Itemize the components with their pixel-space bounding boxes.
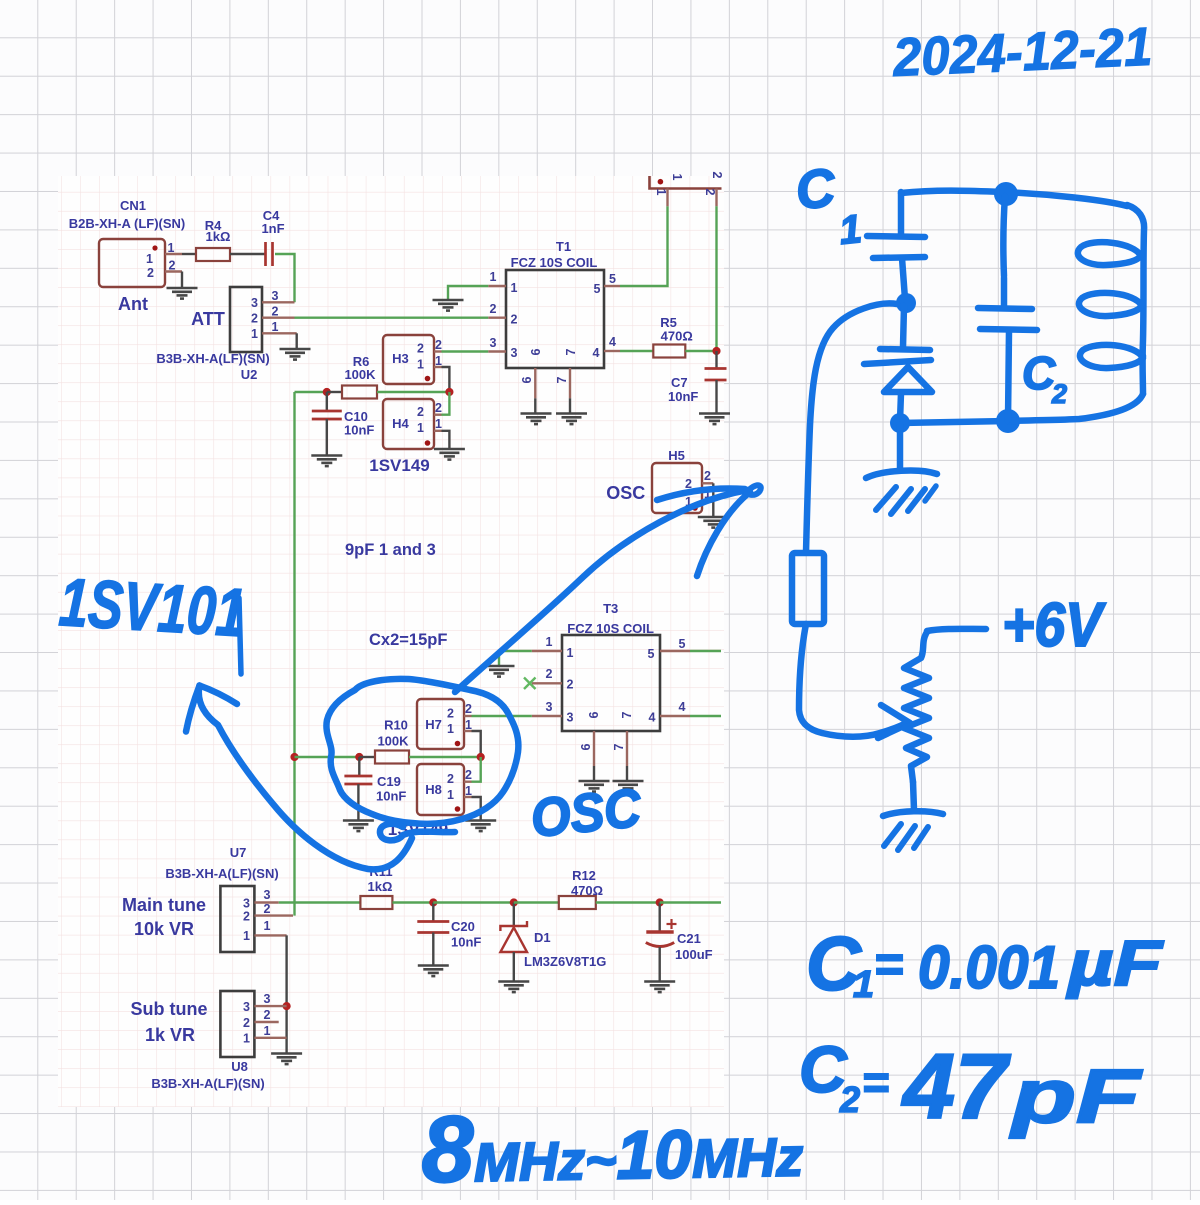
wire below resistor box bbox=[799, 624, 906, 737]
H8 pin1 marker dot bbox=[455, 806, 461, 812]
junction C20 bbox=[429, 898, 437, 906]
varactor H8 box bbox=[417, 764, 464, 815]
varactor H3 box bbox=[383, 335, 434, 384]
svg-text:U7: U7 bbox=[230, 845, 247, 860]
H5 pin 2 stub bbox=[702, 482, 713, 484]
svg-text:2: 2 bbox=[710, 172, 724, 179]
svg-text:1: 1 bbox=[264, 1024, 271, 1038]
wire CN1 pin1 to R4 bbox=[182, 253, 196, 255]
T1 pin 7 stub bbox=[569, 368, 571, 398]
hand-drawn varactor triangle bbox=[884, 367, 932, 392]
svg-text:10nF: 10nF bbox=[376, 789, 406, 804]
ground below U8 bbox=[271, 1054, 302, 1065]
svg-text:pF: pF bbox=[1009, 1054, 1143, 1139]
H5 pin 1 stub bbox=[702, 501, 713, 503]
T3 pin 4 stub bbox=[660, 715, 690, 717]
wire C21 junction to sheet edge bbox=[660, 901, 721, 903]
ground below T3 pin7 bbox=[613, 781, 644, 792]
connector U7 box bbox=[220, 886, 254, 952]
connector H5 box bbox=[652, 463, 702, 513]
svg-text:Main tune: Main tune bbox=[122, 895, 206, 915]
arrow into potentiometer bbox=[878, 705, 910, 738]
capacitor C1 plates bbox=[867, 236, 925, 258]
wire bottom node bbox=[900, 421, 1008, 423]
top connector pin 2 stub bbox=[715, 189, 717, 207]
junction C21 bbox=[656, 898, 664, 906]
svg-text:FCZ 10S COIL: FCZ 10S COIL bbox=[511, 255, 598, 270]
resistor R12 bbox=[559, 896, 596, 909]
svg-text:100K: 100K bbox=[377, 734, 409, 749]
wire top connector pin2 down to R5 junction bbox=[715, 206, 717, 351]
T1 pin 2 stub bbox=[488, 317, 506, 319]
wire R6 to H3/H4 junction bbox=[377, 391, 449, 393]
svg-text:4: 4 bbox=[609, 335, 616, 349]
svg-text:2: 2 bbox=[417, 342, 424, 356]
H8 pin numbers bbox=[447, 768, 472, 802]
wire C21 top lead bbox=[659, 903, 661, 931]
U7 pin 3 stub bbox=[254, 901, 278, 903]
T3 pin numbers bbox=[546, 635, 686, 750]
svg-text:2: 2 bbox=[147, 266, 154, 280]
svg-text:1: 1 bbox=[465, 784, 472, 798]
svg-text:C: C bbox=[1022, 347, 1056, 399]
arrowhead 1SV101 bbox=[200, 686, 238, 705]
resistor R6 bbox=[342, 386, 377, 399]
H5 pin1 marker dot bbox=[692, 505, 698, 511]
svg-text:1: 1 bbox=[435, 354, 442, 368]
potentiometer zigzag bbox=[904, 632, 929, 782]
hand-drawn ground below potentiometer bbox=[883, 811, 943, 816]
junction U8 pin3 bbox=[283, 1002, 291, 1010]
svg-text:6: 6 bbox=[520, 376, 534, 383]
hand-drawn varactor top lead bbox=[903, 306, 904, 347]
wire C20 to ground bbox=[432, 933, 434, 966]
ground below H8 bbox=[465, 821, 496, 832]
connector top edge bbox=[650, 176, 722, 189]
svg-text:100K: 100K bbox=[344, 367, 376, 382]
wire U7 pin3 to R11 bbox=[279, 901, 361, 903]
1SV101 descender stroke bbox=[239, 598, 241, 674]
svg-text:7: 7 bbox=[555, 376, 569, 383]
T1 pin 6 stub bbox=[534, 368, 536, 398]
svg-text:Sub tune: Sub tune bbox=[131, 999, 208, 1019]
wire C20 junction to D1 junction bbox=[433, 901, 514, 903]
H3 pin 1 stub bbox=[434, 366, 442, 368]
svg-text:1: 1 bbox=[465, 718, 472, 732]
resistor R10 bbox=[375, 751, 409, 764]
ground below U2 pin1 bbox=[280, 349, 311, 360]
svg-text:1kΩ: 1kΩ bbox=[206, 229, 231, 244]
ground below D1 bbox=[498, 982, 529, 993]
wire bus to C19 junction bbox=[295, 756, 360, 758]
schematic sheet background bbox=[58, 176, 724, 1107]
svg-text:2: 2 bbox=[264, 1008, 271, 1022]
svg-text:2: 2 bbox=[169, 259, 176, 273]
wire H3 pin1 down to junction bbox=[442, 367, 450, 392]
potentiometer resistor box bbox=[792, 553, 824, 624]
svg-text:3: 3 bbox=[243, 1000, 250, 1014]
svg-text:2: 2 bbox=[704, 469, 711, 483]
H8 pin 1 stub bbox=[464, 796, 472, 798]
resistor R11 bbox=[360, 896, 392, 909]
wire C10 to ground bbox=[326, 419, 328, 455]
svg-text:1: 1 bbox=[837, 207, 864, 253]
svg-text:Ant: Ant bbox=[118, 294, 148, 314]
T1 pin 3 stub bbox=[488, 350, 506, 352]
wire R12 to C21 junction bbox=[596, 901, 660, 903]
svg-text:H7: H7 bbox=[425, 717, 442, 732]
CN1 pin 2 stub bbox=[165, 270, 182, 272]
svg-text:H4: H4 bbox=[392, 416, 409, 431]
wire H4 pin1 to ground bbox=[442, 431, 450, 448]
H4 pin 1 stub bbox=[434, 430, 442, 432]
wire junction to C7 bbox=[715, 351, 717, 369]
svg-text:100uF: 100uF bbox=[675, 947, 713, 962]
junction R5/C7 bbox=[712, 347, 720, 355]
wire C10 top lead bbox=[326, 392, 328, 411]
wire junction to H4 pin2 bbox=[442, 392, 450, 415]
svg-text:2: 2 bbox=[251, 312, 258, 326]
svg-text:5: 5 bbox=[679, 637, 686, 651]
wire vertical tuning bus bbox=[293, 392, 295, 916]
T3 pin 5 stub bbox=[660, 650, 690, 652]
svg-text:470Ω: 470Ω bbox=[661, 329, 693, 344]
varactor H7 box bbox=[417, 699, 464, 749]
svg-text:OSC: OSC bbox=[528, 778, 645, 849]
svg-text:H3: H3 bbox=[392, 351, 409, 366]
ground below H5 bbox=[698, 517, 729, 528]
svg-text:6: 6 bbox=[587, 711, 601, 718]
ground below C21 bbox=[644, 982, 675, 993]
svg-text:B3B-XH-A(LF)(SN): B3B-XH-A(LF)(SN) bbox=[165, 866, 278, 881]
ground below CN1 bbox=[167, 288, 198, 299]
svg-text:2: 2 bbox=[511, 313, 518, 327]
hand-drawn varactor bars bbox=[864, 349, 931, 364]
svg-text:2: 2 bbox=[546, 667, 553, 681]
wire C7 to ground bbox=[715, 380, 717, 413]
wire H8 pin1 to ground bbox=[472, 797, 481, 820]
resistor R4 bbox=[196, 248, 230, 261]
svg-text:3: 3 bbox=[546, 700, 553, 714]
wire T3 pin5 right bbox=[690, 650, 721, 652]
wire C4 to ATT pin3 corner bbox=[275, 254, 295, 302]
H4 pin 2 stub bbox=[434, 414, 442, 416]
junction at C10 bbox=[323, 388, 331, 396]
svg-text:470Ω: 470Ω bbox=[571, 883, 603, 898]
junction dot C1-varactor bbox=[896, 293, 916, 313]
svg-text:5: 5 bbox=[648, 647, 655, 661]
wire T3 pin1 to ground bbox=[499, 651, 532, 665]
svg-text:T1: T1 bbox=[556, 239, 571, 254]
U8 pin 2 stub bbox=[254, 1021, 278, 1023]
junction dot varactor-ground bbox=[890, 413, 910, 433]
capacitor C7 bbox=[705, 369, 727, 381]
svg-text:CN1: CN1 bbox=[120, 198, 146, 213]
wire T3 pin4 right bbox=[690, 715, 721, 717]
svg-text:1: 1 bbox=[654, 189, 668, 196]
wire bottom node to coil bbox=[1008, 394, 1143, 421]
H7 pin 1 stub bbox=[464, 730, 472, 732]
wire T1 pin1 to ground bbox=[448, 286, 488, 299]
svg-text:C19: C19 bbox=[377, 774, 401, 789]
wire T1 pin7 to ground bbox=[569, 398, 571, 413]
svg-text:1: 1 bbox=[435, 417, 442, 431]
wire D1 to ground bbox=[513, 952, 515, 981]
svg-text:ATT: ATT bbox=[191, 309, 225, 329]
svg-text:2: 2 bbox=[435, 401, 442, 415]
junction D1 bbox=[510, 898, 518, 906]
potentiometer to +6V wire bbox=[927, 629, 986, 631]
svg-text:2: 2 bbox=[243, 910, 250, 924]
wire C19 top lead bbox=[358, 757, 360, 776]
CN1 pin1 dot bbox=[152, 245, 157, 250]
svg-text:Cx2=15pF: Cx2=15pF bbox=[369, 631, 447, 649]
wire junction to R6 bbox=[327, 391, 342, 393]
transformer T1 box bbox=[506, 270, 604, 368]
transformer T3 box bbox=[562, 635, 660, 731]
curly arrow to 1SV101 bbox=[199, 686, 412, 870]
svg-text:U8: U8 bbox=[231, 1059, 248, 1074]
svg-text:1kΩ: 1kΩ bbox=[368, 879, 393, 894]
svg-text:4: 4 bbox=[649, 711, 656, 725]
svg-text:3: 3 bbox=[511, 346, 518, 360]
svg-text:7: 7 bbox=[620, 711, 634, 718]
ground at T1 pin1 bbox=[433, 300, 464, 311]
svg-text:3: 3 bbox=[567, 711, 574, 725]
hand-drawn capacitor C2 plates bbox=[978, 308, 1037, 330]
ground below C10 bbox=[311, 456, 342, 467]
wire H7 pin1 down to junction bbox=[472, 731, 481, 757]
svg-text:2: 2 bbox=[465, 702, 472, 716]
svg-text:5: 5 bbox=[594, 282, 601, 296]
hand-drawn C2 leads bbox=[1004, 278, 1009, 420]
H7 pin numbers bbox=[447, 702, 472, 736]
H7 pin 2 stub bbox=[464, 715, 472, 717]
svg-text:B2B-XH-A (LF)(SN): B2B-XH-A (LF)(SN) bbox=[69, 216, 186, 231]
svg-text:1: 1 bbox=[243, 929, 250, 943]
H7 pin1 marker dot bbox=[455, 741, 461, 747]
H8 pin 2 stub bbox=[464, 781, 472, 783]
ground below T1 pin7 bbox=[556, 414, 587, 425]
zener diode D1 bbox=[500, 921, 527, 952]
C21 plus sign bbox=[667, 919, 677, 929]
svg-text:1: 1 bbox=[670, 174, 684, 181]
svg-text:B3B-XH-A(LF)(SN): B3B-XH-A(LF)(SN) bbox=[151, 1076, 264, 1091]
svg-text:6: 6 bbox=[579, 743, 593, 750]
svg-text:1: 1 bbox=[490, 270, 497, 284]
junction H3/H4 bbox=[445, 388, 453, 396]
svg-text:U2: U2 bbox=[241, 367, 258, 382]
svg-text:R12: R12 bbox=[572, 868, 596, 883]
svg-text:1: 1 bbox=[417, 421, 424, 435]
ground at T3 pin1 bbox=[484, 666, 515, 677]
U7 pin 1 stub bbox=[254, 934, 286, 936]
top connector pin 1 stub bbox=[666, 189, 668, 207]
wire R10 to H7/H8 junction bbox=[409, 756, 481, 758]
svg-text:R10: R10 bbox=[384, 718, 408, 733]
wire T1 pin4 to R5 bbox=[620, 350, 653, 352]
svg-text:µF: µF bbox=[1066, 927, 1165, 999]
svg-text:3: 3 bbox=[264, 992, 271, 1006]
ground below C19 bbox=[343, 821, 374, 832]
svg-text:C: C bbox=[793, 157, 839, 221]
wire from junction to resistor divider bbox=[806, 303, 897, 552]
connector U8 box bbox=[220, 991, 254, 1057]
wire H5 pin2 to ground bbox=[712, 483, 714, 516]
ground below C7 bbox=[699, 414, 730, 425]
svg-text:FCZ 10S COIL: FCZ 10S COIL bbox=[567, 621, 654, 636]
H5 pin numbers bbox=[685, 469, 711, 509]
wire U7 pin1 down to U8 bbox=[285, 935, 287, 1053]
freehand circle around H7 H8 R10 C19 bbox=[326, 679, 518, 824]
svg-text:1: 1 bbox=[272, 320, 279, 334]
U2 pin 3 stub bbox=[262, 301, 295, 303]
T3 pin 3 stub bbox=[532, 715, 562, 717]
svg-text:3: 3 bbox=[272, 289, 279, 303]
resistor R5 bbox=[653, 345, 685, 358]
H4 pin numbers bbox=[417, 401, 442, 435]
handwritten C1 = 0.001uF bbox=[806, 922, 1164, 1007]
U2 pin 1 stub bbox=[262, 332, 297, 334]
svg-text:=: = bbox=[862, 1056, 889, 1108]
capacitor C1 top lead bbox=[898, 192, 905, 234]
svg-text:1: 1 bbox=[511, 281, 518, 295]
svg-text:2: 2 bbox=[447, 707, 454, 721]
ground below H4 bbox=[434, 449, 465, 460]
svg-text:47: 47 bbox=[901, 1036, 1011, 1138]
svg-text:1SV149: 1SV149 bbox=[369, 456, 430, 475]
svg-text:1: 1 bbox=[447, 722, 454, 736]
svg-text:2: 2 bbox=[703, 189, 717, 196]
svg-text:10nF: 10nF bbox=[668, 389, 698, 404]
svg-text:D1: D1 bbox=[534, 930, 551, 945]
wire D1 junction to R12 bbox=[514, 901, 559, 903]
U7 pin numbers bbox=[243, 888, 270, 943]
hand-drawn ground lead below varactor bbox=[897, 425, 904, 468]
svg-text:4: 4 bbox=[593, 346, 600, 360]
wire R5 to junction bbox=[685, 350, 716, 352]
T3 pin 1 stub bbox=[532, 650, 562, 652]
wire R4 to C4 bbox=[230, 253, 266, 255]
svg-text:C7: C7 bbox=[671, 375, 688, 390]
U7 pin 2 stub bbox=[254, 914, 293, 916]
T1 pin 1 stub bbox=[488, 285, 506, 287]
svg-text:2: 2 bbox=[435, 338, 442, 352]
U8 pin 3 stub bbox=[254, 1005, 286, 1007]
H4 pin1 marker dot bbox=[425, 440, 431, 446]
T3 pin 7 stub bbox=[626, 731, 628, 766]
potentiometer bottom lead bbox=[913, 782, 914, 810]
svg-text:7: 7 bbox=[612, 743, 626, 750]
U2 pin 2 stub bbox=[262, 317, 295, 319]
svg-text:1SV101: 1SV101 bbox=[57, 564, 247, 651]
svg-text:4: 4 bbox=[679, 700, 686, 714]
connector U2 ATT box bbox=[230, 287, 262, 352]
wire U2 pin2 to T1 pin2 bbox=[295, 317, 489, 319]
CN1 pin numbers bbox=[146, 241, 175, 280]
ground below T3 pin6 bbox=[579, 781, 610, 792]
hand-drawn label C1 bbox=[793, 155, 864, 257]
svg-text:1: 1 bbox=[853, 964, 874, 1006]
junction H7/H8 bbox=[477, 753, 485, 761]
ground below T1 pin6 bbox=[521, 414, 552, 425]
svg-text:C21: C21 bbox=[677, 931, 701, 946]
svg-text:2: 2 bbox=[567, 678, 574, 692]
svg-text:+6V: +6V bbox=[1002, 591, 1106, 660]
wire R11 to C20 junction bbox=[392, 901, 433, 903]
svg-text:7: 7 bbox=[564, 348, 578, 355]
svg-text:H5: H5 bbox=[668, 448, 685, 463]
svg-text:10nF: 10nF bbox=[451, 935, 481, 950]
wire C21 to ground bbox=[659, 947, 661, 981]
svg-text:10k VR: 10k VR bbox=[134, 919, 194, 939]
svg-text:2: 2 bbox=[839, 1079, 860, 1120]
svg-text:OSC: OSC bbox=[606, 483, 645, 503]
wire D1 top lead bbox=[513, 903, 515, 927]
wire T1 pin5 to top connector bbox=[620, 206, 668, 286]
svg-text:2: 2 bbox=[490, 302, 497, 316]
U2 pin numbers bbox=[251, 289, 278, 341]
svg-text:2: 2 bbox=[447, 772, 454, 786]
svg-text:1: 1 bbox=[264, 919, 271, 933]
svg-text:2: 2 bbox=[264, 902, 271, 916]
svg-text:3: 3 bbox=[490, 336, 497, 350]
svg-text:LM3Z6V8T1G: LM3Z6V8T1G bbox=[524, 954, 606, 969]
svg-text:2: 2 bbox=[417, 405, 424, 419]
svg-text:1nF: 1nF bbox=[261, 221, 284, 236]
junction at C19 bbox=[355, 753, 363, 761]
svg-text:5: 5 bbox=[609, 272, 616, 286]
top connector pin numbers bbox=[654, 172, 724, 196]
hand-drawn C2 top lead bbox=[1003, 196, 1005, 276]
T1 pin numbers bbox=[490, 270, 617, 383]
svg-text:C20: C20 bbox=[451, 919, 475, 934]
H3 pin 2 stub bbox=[434, 350, 442, 352]
wire T3 pin3 to H7 pin2 bbox=[472, 715, 532, 717]
T1 pin 4 stub bbox=[604, 350, 620, 352]
H3 pin numbers bbox=[417, 338, 442, 372]
svg-text:3: 3 bbox=[243, 897, 250, 911]
wire bus corner to C10 junction bbox=[295, 391, 327, 393]
strike-through over 1SV149 bbox=[380, 824, 455, 841]
T1 pin 5 stub bbox=[604, 285, 620, 287]
svg-text:=: = bbox=[874, 936, 903, 992]
junction dot top node bbox=[994, 182, 1018, 206]
hand-drawn varactor bottom lead bbox=[900, 393, 901, 421]
svg-text:1: 1 bbox=[243, 1032, 250, 1046]
svg-text:3: 3 bbox=[264, 888, 271, 902]
capacitor C1 bottom lead bbox=[902, 258, 905, 299]
svg-text:9pF 1 and 3: 9pF 1 and 3 bbox=[345, 541, 436, 559]
no-connect X at T3 pin2 bbox=[524, 678, 536, 690]
junction bus at R10 row bbox=[290, 753, 298, 761]
varactor H4 box bbox=[383, 399, 434, 449]
wire T3 pin6 to ground bbox=[593, 766, 595, 780]
svg-text:10nF: 10nF bbox=[344, 423, 374, 438]
capacitor C10 bbox=[312, 411, 342, 419]
svg-text:2: 2 bbox=[1051, 379, 1067, 409]
hand-drawn coil bbox=[1127, 205, 1144, 394]
T3 pin 6 stub bbox=[593, 731, 595, 766]
U8 pin numbers bbox=[243, 992, 270, 1046]
svg-text:1: 1 bbox=[251, 327, 258, 341]
junction dot bottom node bbox=[996, 409, 1020, 433]
connector CN1 bbox=[99, 239, 165, 287]
capacitor C21 polarized bbox=[646, 932, 674, 947]
wire T3 pin7 to ground bbox=[626, 766, 628, 780]
svg-text:T3: T3 bbox=[603, 601, 618, 616]
svg-text:1: 1 bbox=[546, 635, 553, 649]
